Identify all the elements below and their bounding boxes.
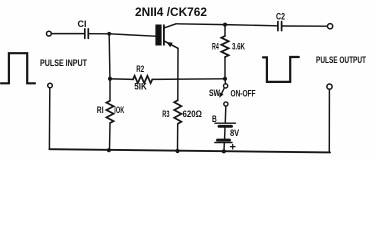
switch SW contact lower	[224, 102, 228, 106]
svg-text:B: B	[212, 114, 217, 124]
svg-text:3.6K: 3.6K	[232, 42, 245, 52]
battery B cell2 plate long	[215, 142, 232, 144]
output pulse waveform	[263, 57, 299, 82]
resistor R2	[133, 76, 152, 83]
switch SW contact upper	[224, 84, 228, 88]
svg-text:R3: R3	[162, 109, 169, 119]
node battery ground	[222, 149, 226, 153]
svg-text:PULSE OUTPUT: PULSE OUTPUT	[316, 55, 366, 65]
wire C2 to output	[283, 25, 328, 27]
svg-text:R2: R2	[136, 64, 144, 74]
output terminal lower riser	[328, 89, 330, 152]
resistor R3	[174, 100, 181, 123]
wire C1 to base node	[89, 33, 109, 35]
transistor Q1 base bar	[155, 25, 161, 46]
wire base node down	[108, 35, 111, 77]
wire switch to battery	[224, 106, 227, 122]
svg-text:+: +	[230, 141, 236, 153]
resistor R1	[106, 101, 113, 123]
wire R1 top	[109, 81, 111, 101]
wire input to C1	[52, 33, 85, 35]
svg-text:C2: C2	[276, 12, 285, 22]
capacitor C1	[85, 29, 89, 39]
svg-text:2NII4 /CK762: 2NII4 /CK762	[135, 5, 207, 19]
wire battery to ground	[223, 143, 225, 151]
node R3 ground	[175, 149, 179, 153]
capacitor C2	[278, 22, 282, 31]
battery inner wire	[224, 128, 226, 139]
battery B cell2 plate short	[218, 139, 230, 142]
node R4 top	[223, 23, 227, 27]
wire R1 bottom	[109, 123, 112, 150]
wire emitter down	[177, 48, 179, 100]
node switch junction	[223, 77, 227, 81]
node R2 junction	[108, 77, 112, 81]
svg-text:620Ω: 620Ω	[183, 109, 203, 119]
svg-text:ON-OFF: ON-OFF	[231, 89, 256, 99]
wire R3 bottom	[177, 124, 179, 151]
svg-text:PULSE INPUT: PULSE INPUT	[40, 58, 87, 68]
svg-text:RI: RI	[97, 105, 104, 115]
node R1 ground	[107, 148, 111, 152]
svg-text:R4: R4	[212, 42, 219, 52]
input pulse waveform	[1, 53, 35, 83]
switch arm	[220, 88, 224, 96]
node base junction	[107, 32, 111, 36]
collector rail	[176, 23, 225, 26]
transistor Q1 emitter arrow	[166, 42, 173, 47]
battery B cell1 plate short	[219, 125, 232, 128]
resistor R4 lead	[224, 27, 226, 36]
transistor Q1 emitter lead	[165, 41, 178, 48]
wire base node to transistor base	[109, 34, 155, 36]
rail to C2	[225, 25, 277, 26]
svg-text:IOK: IOK	[114, 105, 124, 115]
ground rail	[49, 149, 330, 152]
wire R2 left	[112, 78, 133, 81]
transistor Q1 collector lead	[165, 24, 176, 28]
switch arm arrowhead	[219, 92, 223, 97]
wire R4 to switch node	[224, 57, 226, 77]
input terminal top	[47, 31, 52, 36]
input terminal lower riser	[48, 88, 50, 149]
input terminal lower	[48, 83, 53, 88]
wire to switch	[224, 81, 226, 84]
svg-text:CI: CI	[78, 19, 87, 29]
wire R2 right	[152, 78, 223, 81]
output terminal lower	[327, 84, 332, 89]
output terminal top	[328, 24, 333, 29]
svg-text:SW: SW	[209, 88, 221, 98]
battery B cell1 plate long	[215, 122, 236, 124]
svg-text:5IK: 5IK	[134, 82, 147, 92]
resistor R4	[221, 36, 228, 57]
svg-text:8V: 8V	[230, 128, 239, 138]
